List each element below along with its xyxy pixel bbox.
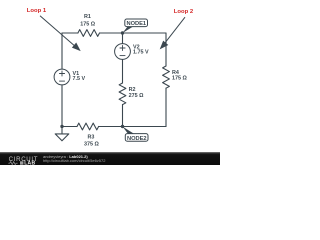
wire bottom-left segment: [62, 126, 77, 128]
svg-text:1.75 V: 1.75 V: [133, 50, 149, 56]
resistor R1: [78, 30, 100, 37]
svg-text:R3: R3: [88, 135, 95, 141]
loop 1 annotation arrow: [40, 16, 81, 51]
wire V2 to R2: [122, 60, 124, 84]
wire NODE2 to bottom-right corner: [123, 126, 167, 128]
node NODE1 junction dot: [121, 31, 124, 34]
svg-text:175 Ω: 175 Ω: [80, 22, 95, 28]
voltage source V1: [54, 69, 70, 85]
node NODE2 junction dot: [121, 125, 124, 128]
ground: [55, 127, 69, 141]
wire left branch upper: [61, 33, 63, 69]
voltage source V2: [115, 44, 131, 60]
svg-text:NODE2: NODE2: [127, 136, 147, 142]
footer bar: [0, 152, 220, 166]
wire V2 top lead: [122, 33, 124, 44]
CircuitLab logo: [0, 152, 42, 166]
wire top-left segment: [62, 32, 78, 34]
node label NODE1: [123, 19, 148, 33]
node label NODE2: [123, 127, 149, 142]
svg-text:LAB: LAB: [24, 160, 35, 165]
svg-text:175 Ω: 175 Ω: [172, 75, 187, 81]
svg-text:Loop 2: Loop 2: [174, 9, 194, 15]
loop 2 annotation arrow: [160, 17, 185, 49]
wire left branch lower: [61, 85, 63, 127]
wire R1 to NODE1: [100, 32, 123, 34]
wire R2 to NODE2: [122, 105, 124, 127]
svg-text:375 Ω: 375 Ω: [84, 142, 99, 148]
wire right branch lower: [165, 88, 167, 126]
svg-text:NODE1: NODE1: [127, 21, 147, 27]
resistor R2: [119, 83, 126, 105]
wire right branch upper: [165, 33, 167, 66]
resistor R3: [77, 123, 99, 130]
resistor R4: [163, 66, 170, 88]
wire NODE1 to top-right corner: [123, 32, 167, 34]
node ground junction dot: [60, 125, 63, 128]
svg-text:R1: R1: [84, 14, 91, 20]
svg-text:275 Ω: 275 Ω: [129, 93, 144, 99]
svg-text:7.5 V: 7.5 V: [73, 76, 86, 82]
svg-text:Loop 1: Loop 1: [27, 8, 47, 14]
wire R3 to NODE2: [99, 126, 123, 128]
